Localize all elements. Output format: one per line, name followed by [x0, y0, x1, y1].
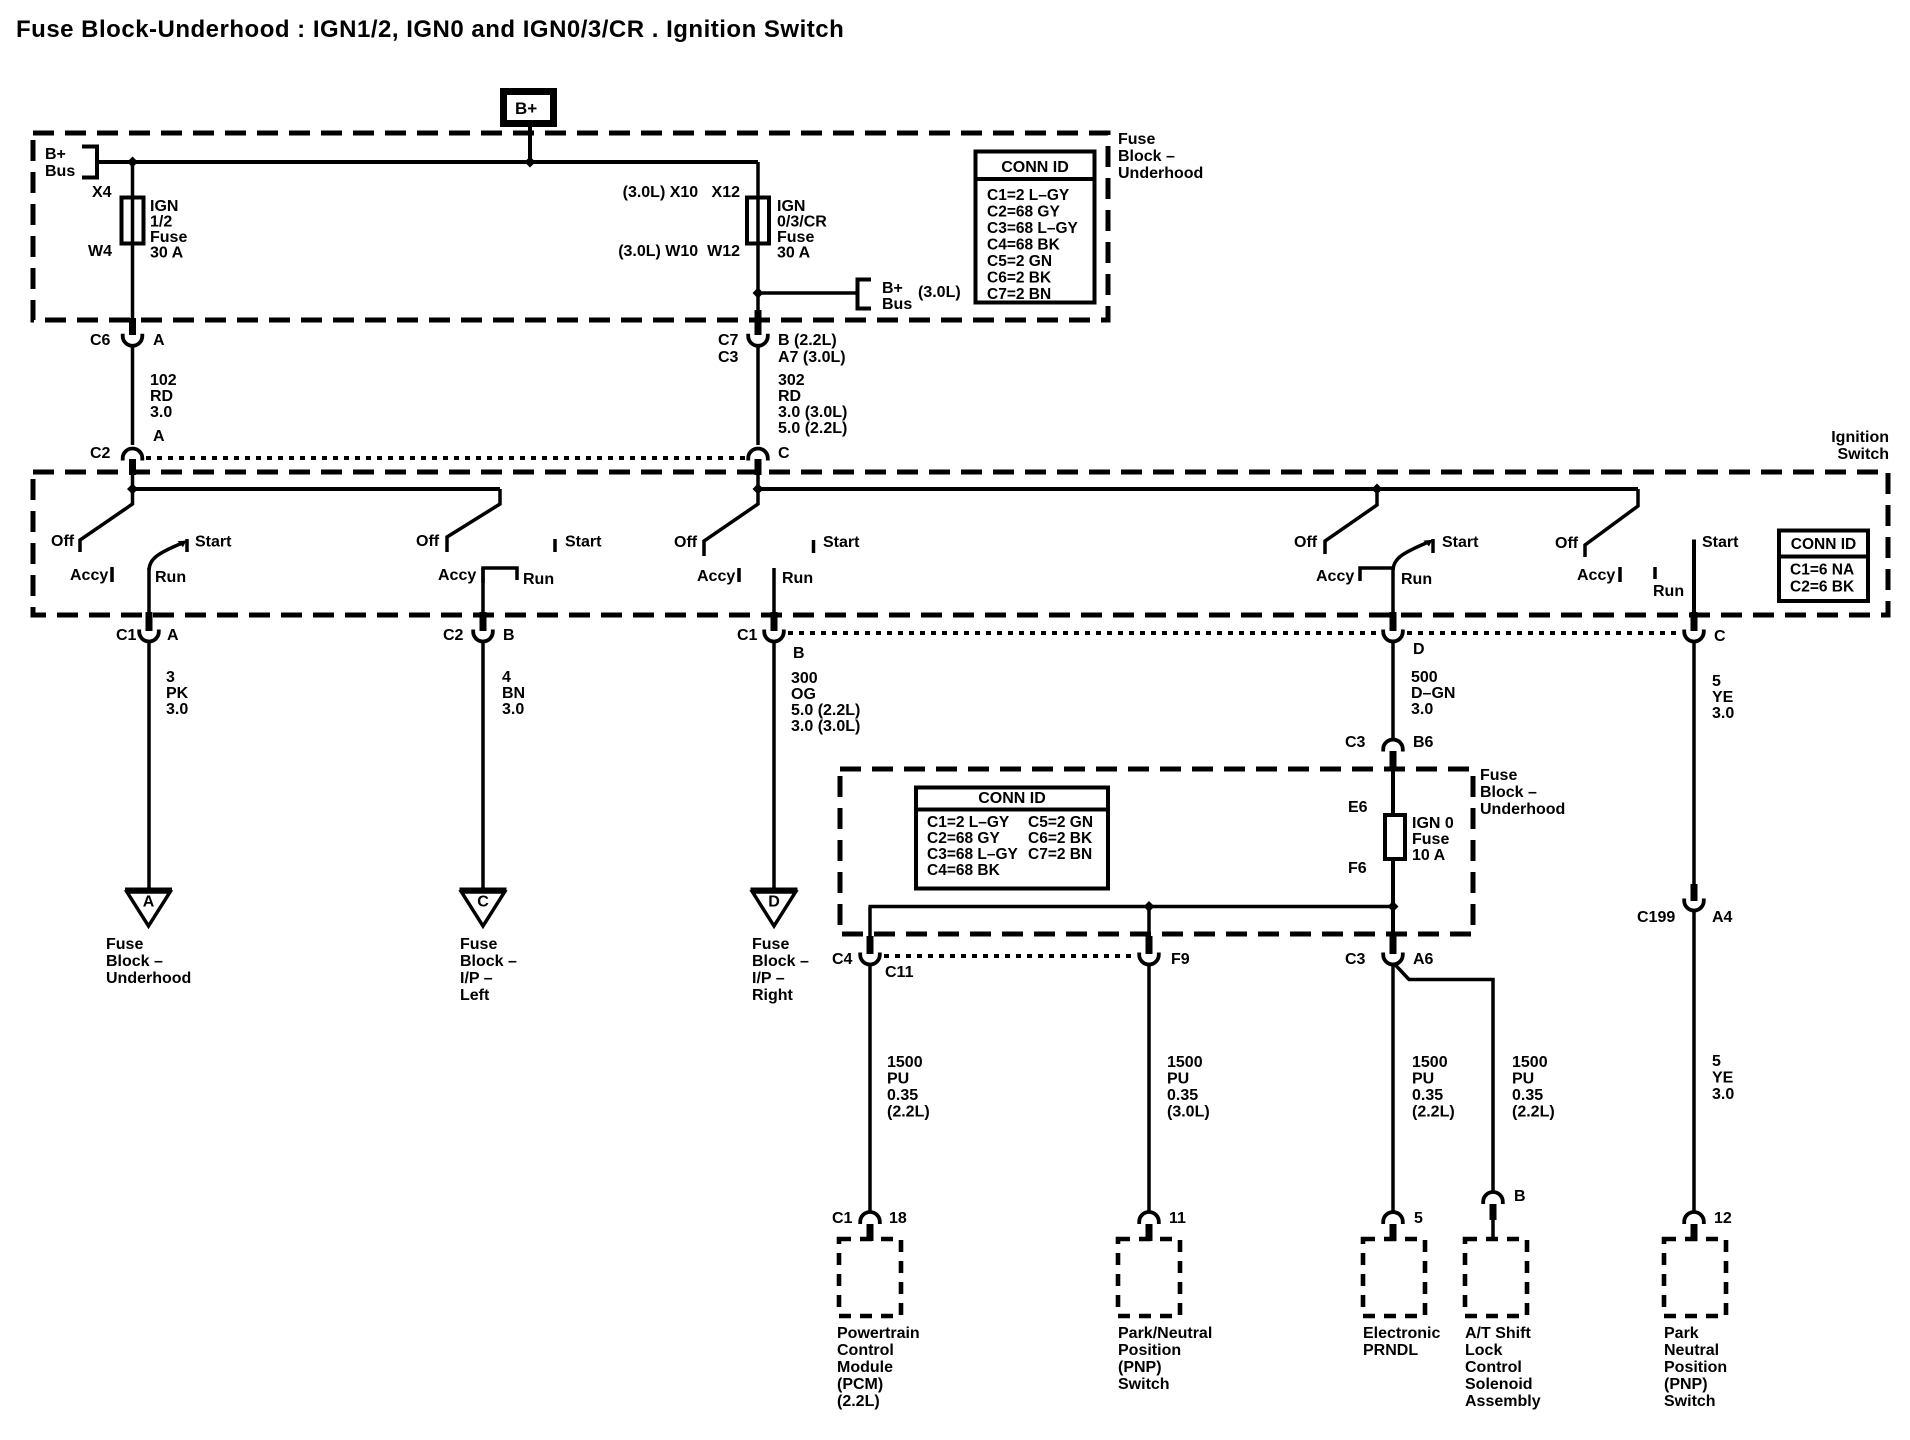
svg-text:3.0: 3.0 — [150, 404, 172, 421]
svg-text:3.0: 3.0 — [166, 701, 188, 718]
wire B+ bus horizontal — [97, 160, 758, 164]
wire 4 BN — [481, 643, 485, 889]
switch 2 wiper Accy-Run — [483, 568, 517, 583]
svg-text:A/T Shift: A/T Shift — [1465, 1325, 1531, 1342]
svg-text:Solenoid: Solenoid — [1465, 1376, 1533, 1393]
svg-text:C: C — [1714, 628, 1726, 645]
out-arrow D — [751, 890, 798, 927]
svg-text:C2=68 GY: C2=68 GY — [987, 204, 1060, 221]
wire into fuse IGN 0 — [1391, 770, 1395, 815]
connector pin 5 — [1383, 1212, 1403, 1224]
connector C3 pin B6 — [1383, 740, 1403, 752]
out-arrow A — [125, 890, 172, 927]
svg-text:C1: C1 — [832, 1210, 853, 1227]
svg-text:Lock: Lock — [1465, 1342, 1502, 1359]
svg-text:5.0 (2.2L): 5.0 (2.2L) — [778, 420, 847, 437]
switch 3 wiper to Off — [704, 489, 758, 556]
svg-text:C: C — [778, 445, 790, 462]
wire distribution horizontal — [869, 905, 1394, 909]
svg-text:(2.2L): (2.2L) — [887, 1104, 930, 1121]
svg-text:Off: Off — [1555, 535, 1579, 552]
label Ignition Switch — [1831, 429, 1889, 463]
svg-text:C6: C6 — [90, 332, 111, 349]
shift lock box — [1465, 1239, 1527, 1316]
switch 4 Run wire — [1391, 568, 1395, 614]
svg-text:CONN ID: CONN ID — [1001, 159, 1069, 176]
switch 1 Run wire — [147, 568, 151, 614]
svg-text:Block –: Block – — [1118, 148, 1175, 165]
wire down to F9 — [1147, 907, 1151, 939]
svg-text:12: 12 — [1714, 1210, 1732, 1227]
switch 3 Start tick — [812, 540, 816, 553]
svg-text:(3.0L) X10 X12: (3.0L) X10 X12 — [623, 184, 740, 201]
svg-text:Switch: Switch — [1664, 1393, 1716, 1410]
switch 2 wiper to Off — [447, 489, 500, 552]
connector C6 pin A — [123, 334, 143, 346]
fuse block underhood box (second) — [840, 769, 1473, 934]
svg-text:C5=2 GN: C5=2 GN — [1028, 814, 1093, 831]
svg-text:D–GN: D–GN — [1411, 685, 1455, 702]
switch 1 wiper to Off — [80, 489, 133, 552]
svg-text:B: B — [503, 627, 515, 644]
svg-text:1500: 1500 — [1512, 1054, 1548, 1071]
PRNDL box — [1363, 1239, 1425, 1316]
svg-text:Block –: Block – — [752, 953, 809, 970]
svg-text:B: B — [793, 645, 805, 662]
svg-text:A: A — [153, 332, 165, 349]
label 4 BN 3.0 — [502, 669, 525, 718]
svg-text:Powertrain: Powertrain — [837, 1325, 920, 1342]
svg-text:Fuse Block-Underhood : IGN1/2,: Fuse Block-Underhood : IGN1/2, IGN0 and … — [16, 16, 844, 43]
connector face dotted line C4-F9 — [884, 954, 1136, 958]
svg-text:30 A: 30 A — [150, 245, 184, 262]
svg-text:C1=2 L–GY: C1=2 L–GY — [927, 814, 1010, 831]
wire C2 to rail — [131, 472, 135, 489]
connector C199 pin A4 — [1684, 899, 1704, 911]
svg-text:Fuse: Fuse — [777, 229, 814, 246]
svg-text:Block –: Block – — [106, 953, 163, 970]
svg-text:D: D — [768, 894, 780, 911]
svg-text:C1: C1 — [116, 627, 137, 644]
svg-text:A7 (3.0L): A7 (3.0L) — [778, 349, 846, 366]
svg-text:0.35: 0.35 — [1412, 1087, 1443, 1104]
svg-text:F9: F9 — [1171, 951, 1190, 968]
svg-text:C6=2 BK: C6=2 BK — [987, 270, 1052, 287]
label IGN 0/3/CR Fuse 30 A — [777, 198, 827, 262]
wire 5 YE upper — [1692, 643, 1696, 885]
svg-text:3: 3 — [166, 669, 175, 686]
svg-text:Switch: Switch — [1837, 446, 1889, 463]
connector face dotted line lower row — [788, 631, 1379, 635]
connector B stub — [1490, 1204, 1497, 1220]
connector F9 — [1139, 953, 1159, 965]
svg-text:3.0: 3.0 — [502, 701, 524, 718]
svg-text:18: 18 — [889, 1210, 907, 1227]
svg-text:Accy: Accy — [1316, 568, 1354, 585]
svg-text:Start: Start — [195, 534, 232, 551]
wire A6 to PRNDL — [1391, 965, 1395, 1211]
label Electronic PRNDL — [1363, 1325, 1440, 1359]
switch 4 spring arc to Start — [1393, 542, 1428, 570]
svg-text:0/3/CR: 0/3/CR — [777, 214, 827, 231]
connector C6 pin A stub — [129, 318, 136, 335]
svg-text:C3=68 L–GY: C3=68 L–GY — [927, 846, 1019, 863]
svg-text:C6=2 BK: C6=2 BK — [1028, 830, 1093, 847]
switch 2 Accy wire — [481, 568, 485, 614]
connector C (start) — [1684, 630, 1704, 642]
connector C1 pin 18 — [860, 1212, 880, 1224]
svg-text:3.0 (3.0L): 3.0 (3.0L) — [778, 404, 847, 421]
svg-text:A6: A6 — [1413, 951, 1434, 968]
svg-text:Underhood: Underhood — [1480, 801, 1565, 818]
junction at B+ drop — [525, 157, 536, 168]
node B+ Bus label (left) — [45, 146, 75, 180]
fuse IGN 0 — [1385, 815, 1405, 859]
connector 11 stub — [1146, 1224, 1153, 1241]
park neutral box — [1664, 1239, 1726, 1316]
svg-text:Run: Run — [155, 569, 186, 586]
connector D stub — [1390, 612, 1397, 631]
svg-text:F6: F6 — [1348, 860, 1367, 877]
label 3 PK 3.0 — [166, 669, 189, 718]
switch 1 Start tick — [185, 539, 189, 552]
label 5 YE 3.0 upper — [1712, 673, 1734, 722]
switch 4 wiper Accy-Run — [1360, 568, 1393, 581]
wire branch to B+ bus 3.0L — [758, 291, 858, 295]
svg-text:B+: B+ — [515, 99, 537, 118]
svg-text:Off: Off — [1294, 534, 1318, 551]
svg-text:(2.2L): (2.2L) — [837, 1393, 880, 1410]
svg-text:B+: B+ — [882, 280, 903, 297]
connector C1 pin B stub — [771, 612, 778, 631]
svg-text:Fuse: Fuse — [150, 229, 187, 246]
switch 4 Start tick — [1431, 539, 1435, 553]
connector F9 stub — [1146, 936, 1153, 954]
label Fuse Block - Underhood (second) — [1480, 767, 1565, 818]
svg-text:Bus: Bus — [882, 296, 912, 313]
svg-text:3.0: 3.0 — [1712, 1086, 1734, 1103]
svg-text:Control: Control — [837, 1342, 894, 1359]
switch 5 wiper to Off — [1585, 489, 1638, 557]
svg-text:RD: RD — [150, 388, 173, 405]
svg-text:5: 5 — [1414, 1210, 1423, 1227]
label Powertrain Control Module — [837, 1325, 920, 1410]
svg-text:Switch: Switch — [1118, 1376, 1170, 1393]
svg-text:Fuse: Fuse — [752, 936, 789, 953]
svg-text:Run: Run — [782, 570, 813, 587]
svg-text:Control: Control — [1465, 1359, 1522, 1376]
svg-text:I/P –: I/P – — [752, 970, 785, 987]
label A/T Shift Lock Control Solenoid Assembly — [1465, 1325, 1541, 1410]
junction rail sw4 — [1372, 484, 1383, 495]
svg-text:0.35: 0.35 — [1512, 1087, 1543, 1104]
wire through fuse IGN 1/2 — [131, 162, 135, 320]
label 1500 PU 0.35 (2.2L) fourth — [1512, 1054, 1555, 1121]
switch 5 Start wire — [1692, 540, 1696, 615]
ignition switch box — [33, 472, 1888, 615]
svg-text:Accy: Accy — [697, 568, 735, 585]
svg-text:1500: 1500 — [1412, 1054, 1448, 1071]
svg-text:IGN: IGN — [777, 198, 805, 215]
connector C2 pin B — [473, 630, 493, 642]
svg-text:C11: C11 — [885, 964, 914, 981]
connector pin 12 — [1684, 1212, 1704, 1224]
svg-text:(2.2L): (2.2L) — [1412, 1104, 1455, 1121]
svg-text:BN: BN — [502, 685, 525, 702]
label IGN 1/2 Fuse 30 A — [150, 198, 187, 262]
svg-text:Block –: Block – — [460, 953, 517, 970]
label 500 D-GN 3.0 — [1411, 669, 1455, 718]
label Park/Neutral Position Switch — [1118, 1325, 1212, 1393]
svg-text:A: A — [167, 627, 179, 644]
svg-text:Start: Start — [1442, 534, 1479, 551]
svg-text:0.35: 0.35 — [1167, 1087, 1198, 1104]
svg-text:11: 11 — [1169, 1210, 1186, 1227]
switch 1 spring arc to Start — [149, 543, 183, 570]
svg-text:B6: B6 — [1413, 734, 1434, 751]
svg-text:5: 5 — [1712, 1053, 1721, 1070]
svg-text:Electronic: Electronic — [1363, 1325, 1440, 1342]
svg-text:1/2: 1/2 — [150, 214, 172, 231]
connector C2 pin A (arc) — [123, 449, 143, 461]
svg-text:PU: PU — [1412, 1071, 1434, 1088]
label 1500 PU 0.35 (2.2L) first — [887, 1054, 930, 1121]
rail left — [133, 487, 501, 491]
connector C (arc) — [748, 449, 768, 461]
CONN ID table (second fuse block) — [916, 788, 1108, 889]
label Fuse Block - I/P - Left — [460, 936, 517, 1004]
svg-text:Ignition: Ignition — [1831, 429, 1889, 446]
svg-text:Accy: Accy — [70, 567, 108, 584]
svg-text:1500: 1500 — [887, 1054, 923, 1071]
connector C1 pin A — [139, 630, 159, 642]
svg-text:Off: Off — [416, 533, 440, 550]
label 1500 PU 0.35 (2.2L) third — [1412, 1054, 1455, 1121]
svg-text:W4: W4 — [88, 243, 112, 260]
fuse IGN 1/2 — [122, 198, 144, 244]
svg-text:A4: A4 — [1712, 909, 1733, 926]
svg-text:302: 302 — [778, 372, 805, 389]
connector C1/18 stub — [867, 1224, 874, 1241]
svg-text:0.35: 0.35 — [887, 1087, 918, 1104]
wire 500 D-GN — [1391, 643, 1395, 741]
svg-text:C7=2 BN: C7=2 BN — [1028, 846, 1092, 863]
connector 12 stub — [1691, 1224, 1698, 1241]
wire 5 YE lower — [1692, 911, 1696, 1211]
svg-text:C7: C7 — [718, 332, 739, 349]
connector C4 pin C11 — [860, 953, 880, 965]
svg-text:Accy: Accy — [438, 567, 476, 584]
svg-text:Position: Position — [1664, 1359, 1727, 1376]
svg-text:I/P –: I/P – — [460, 970, 493, 987]
svg-text:500: 500 — [1411, 669, 1438, 686]
label Fuse Block - Underhood (arrow A) — [106, 936, 191, 987]
svg-text:Assembly: Assembly — [1465, 1393, 1541, 1410]
svg-text:C7=2 BN: C7=2 BN — [987, 286, 1051, 303]
connector C2 stub — [129, 459, 136, 475]
svg-text:X4: X4 — [92, 184, 112, 201]
svg-text:C5=2 GN: C5=2 GN — [987, 253, 1052, 270]
svg-text:C2=6 BK: C2=6 BK — [1790, 579, 1855, 596]
svg-text:3.0: 3.0 — [1712, 705, 1734, 722]
svg-text:C1=6 NA: C1=6 NA — [1790, 562, 1854, 579]
connector C1 pin A stub — [146, 612, 153, 631]
B+ terminal box — [504, 92, 554, 124]
wire C to rail — [756, 472, 760, 489]
svg-text:Underhood: Underhood — [106, 970, 191, 987]
svg-text:5: 5 — [1712, 673, 1721, 690]
switch 5 Run tick and label — [1653, 567, 1657, 579]
svg-text:YE: YE — [1712, 689, 1734, 706]
svg-text:30 A: 30 A — [777, 245, 811, 262]
svg-text:(3.0L): (3.0L) — [918, 284, 961, 301]
wire 302 RD — [756, 347, 760, 445]
B+ Bus bracket (left) — [82, 147, 97, 178]
svg-text:Fuse: Fuse — [1480, 767, 1517, 784]
svg-text:C1=2 L–GY: C1=2 L–GY — [987, 187, 1070, 204]
junction rail sw3 — [753, 484, 764, 495]
svg-text:D: D — [1413, 641, 1425, 658]
connector C (start) stub — [1691, 612, 1698, 631]
svg-text:C3: C3 — [1345, 734, 1366, 751]
wire C4 to PCM — [868, 965, 872, 1211]
label 302 RD — [778, 372, 847, 437]
svg-text:10 A: 10 A — [1412, 847, 1446, 864]
svg-text:B (2.2L): B (2.2L) — [778, 332, 837, 349]
svg-text:IGN 0: IGN 0 — [1412, 815, 1454, 832]
connector C1 pin B — [764, 630, 784, 642]
wire 300 OG — [772, 643, 776, 889]
svg-text:OG: OG — [791, 686, 816, 703]
svg-text:Neutral: Neutral — [1664, 1342, 1719, 1359]
B+ Bus bracket (right 3.0L) — [858, 280, 872, 309]
connector face dotted line C2-C — [146, 456, 745, 460]
connector C stub — [755, 459, 762, 475]
svg-text:Accy: Accy — [1577, 567, 1615, 584]
svg-text:3.0: 3.0 — [1411, 701, 1433, 718]
svg-text:(PNP): (PNP) — [1118, 1359, 1162, 1376]
PCM box — [839, 1239, 901, 1316]
wire 3 PK — [147, 643, 151, 889]
svg-text:C1: C1 — [737, 627, 758, 644]
switch 2 Start tick — [553, 539, 557, 552]
svg-text:Run: Run — [1401, 571, 1432, 588]
connector C7/C3 pin B/A7 — [748, 334, 768, 346]
svg-text:Fuse: Fuse — [1118, 131, 1155, 148]
svg-text:C4=68 BK: C4=68 BK — [927, 862, 1001, 879]
label Fuse Block - Underhood (top) — [1118, 131, 1203, 182]
connector C7/C3 stub — [755, 310, 762, 335]
svg-text:Bus: Bus — [45, 163, 75, 180]
svg-text:CONN ID: CONN ID — [1791, 536, 1856, 553]
connector C3 pin A6 — [1383, 953, 1403, 965]
svg-text:Start: Start — [823, 534, 860, 551]
label 102 RD 3.0 — [150, 372, 177, 421]
svg-text:YE: YE — [1712, 1070, 1734, 1087]
switch 3 Run wire — [772, 568, 776, 614]
svg-text:(2.2L): (2.2L) — [1512, 1104, 1555, 1121]
connector 5 stub — [1390, 1224, 1397, 1241]
svg-text:(3.0L): (3.0L) — [1167, 1104, 1210, 1121]
svg-text:(PCM): (PCM) — [837, 1376, 883, 1393]
switch 4 wiper to Off — [1325, 489, 1377, 554]
svg-text:Right: Right — [752, 987, 794, 1004]
wire branch A6 to shift lock — [1394, 964, 1493, 1192]
svg-text:(3.0L) W10 W12: (3.0L) W10 W12 — [618, 243, 740, 260]
svg-text:PU: PU — [1512, 1071, 1534, 1088]
wire through fuse IGN 0/3/CR — [756, 162, 760, 320]
junction rail sw1 — [127, 484, 138, 495]
svg-text:C4=68 BK: C4=68 BK — [987, 237, 1061, 254]
connector C3/B6 stub — [1390, 751, 1397, 770]
PNP switch box — [1118, 1239, 1180, 1316]
label Park Neutral Position Switch — [1664, 1325, 1727, 1410]
svg-text:Run: Run — [1653, 583, 1684, 600]
svg-text:Park: Park — [1664, 1325, 1699, 1342]
svg-text:Start: Start — [565, 534, 602, 551]
svg-text:Left: Left — [460, 987, 490, 1004]
svg-text:1500: 1500 — [1167, 1054, 1203, 1071]
svg-text:(PNP): (PNP) — [1664, 1376, 1708, 1393]
wire fuse IGN 0 down — [1391, 859, 1395, 938]
connector pin 11 — [1139, 1212, 1159, 1224]
svg-text:PRNDL: PRNDL — [1363, 1342, 1418, 1359]
svg-text:Fuse: Fuse — [460, 936, 497, 953]
svg-text:3.0 (3.0L): 3.0 (3.0L) — [791, 718, 860, 735]
svg-text:Off: Off — [51, 533, 75, 550]
svg-text:C199: C199 — [1637, 909, 1675, 926]
CONN ID table (ignition switch) — [1779, 531, 1868, 602]
svg-text:C2=68 GY: C2=68 GY — [927, 830, 1000, 847]
svg-text:Fuse: Fuse — [1412, 831, 1449, 848]
svg-text:Position: Position — [1118, 1342, 1181, 1359]
rail right — [758, 487, 1638, 491]
connector C4 stub — [867, 936, 874, 954]
svg-text:C3=68 L–GY: C3=68 L–GY — [987, 220, 1079, 237]
connector C199 stub — [1691, 884, 1698, 901]
svg-text:CONN ID: CONN ID — [978, 790, 1046, 807]
svg-text:PU: PU — [1167, 1071, 1189, 1088]
svg-text:E6: E6 — [1348, 799, 1368, 816]
junction at IGN 1/2 branch — [127, 157, 138, 168]
svg-text:PU: PU — [887, 1071, 909, 1088]
svg-text:Park/Neutral: Park/Neutral — [1118, 1325, 1212, 1342]
wire 102 RD — [131, 347, 135, 445]
svg-text:5.0 (2.2L): 5.0 (2.2L) — [791, 702, 860, 719]
svg-text:A: A — [153, 428, 165, 445]
svg-text:C: C — [477, 894, 489, 911]
connector C2 pin B stub — [480, 612, 487, 631]
svg-text:C2: C2 — [90, 445, 111, 462]
wire B+ drop — [528, 127, 532, 162]
label Fuse Block - I/P - Right — [752, 936, 809, 1004]
svg-text:Block –: Block – — [1480, 784, 1537, 801]
svg-text:102: 102 — [150, 372, 177, 389]
svg-text:C3: C3 — [1345, 951, 1366, 968]
svg-text:C3: C3 — [718, 349, 739, 366]
svg-text:IGN: IGN — [150, 198, 178, 215]
out-arrow C — [460, 890, 507, 927]
svg-text:C4: C4 — [832, 951, 853, 968]
svg-text:Module: Module — [837, 1359, 893, 1376]
fuse IGN 0/3/CR — [747, 198, 769, 244]
connector pin B — [1483, 1192, 1503, 1204]
junction at 3.0L branch — [753, 288, 764, 299]
junction at IGN 0 wire — [1388, 901, 1399, 912]
connector C3 pin A6 stub — [1390, 936, 1397, 954]
junction at F9 — [1144, 901, 1155, 912]
node B+ Bus (3.0L) label — [882, 280, 961, 313]
